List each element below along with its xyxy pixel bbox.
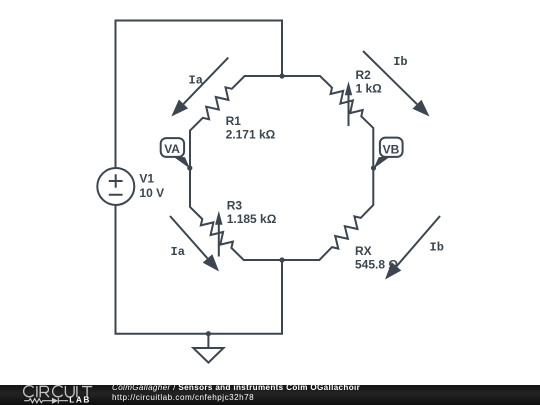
svg-text:1.185 kΩ: 1.185 kΩ <box>227 212 277 226</box>
svg-text:Ia: Ia <box>189 74 203 88</box>
svg-text:VA: VA <box>164 142 180 156</box>
svg-text:2.171 kΩ: 2.171 kΩ <box>226 127 276 141</box>
svg-text:Ib: Ib <box>430 240 444 254</box>
svg-text:RX: RX <box>355 244 372 258</box>
svg-text:V1: V1 <box>139 172 154 186</box>
svg-text:Ib: Ib <box>393 55 407 69</box>
svg-text:LAB: LAB <box>69 395 91 405</box>
svg-text:VB: VB <box>383 142 400 156</box>
svg-text:1 kΩ: 1 kΩ <box>356 81 383 95</box>
svg-text:Ia: Ia <box>171 245 185 259</box>
svg-text:545.8 Ω: 545.8 Ω <box>355 258 398 272</box>
svg-text:R3: R3 <box>227 198 243 212</box>
svg-text:10 V: 10 V <box>139 186 164 200</box>
svg-text:R1: R1 <box>226 114 242 128</box>
svg-text:R2: R2 <box>356 68 372 82</box>
